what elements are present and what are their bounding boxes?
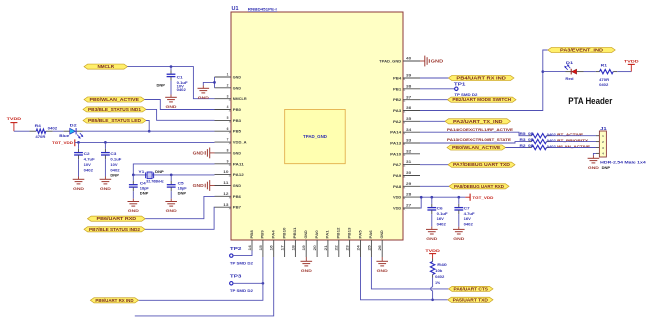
svg-text:0402: 0402 — [599, 83, 608, 87]
svg-text:5: 5 — [227, 116, 229, 120]
resistor R40 10k 0402 1% — [430, 259, 446, 285]
svg-text:0R: 0R — [528, 138, 534, 142]
wire R4 to D2 — [53, 130, 64, 132]
svg-text:BT_PRIORITY: BT_PRIORITY — [557, 139, 589, 143]
net label PA14/COEXCTRL1/RF_ACTIVE — [447, 128, 514, 132]
svg-text:PB2/UART MODE SWITCH: PB2/UART MODE SWITCH — [452, 97, 511, 102]
wire VDD rail pins 27-28 — [420, 197, 465, 208]
svg-text:19: 19 — [302, 245, 306, 250]
svg-text:VDD_A: VDD_A — [233, 141, 247, 145]
svg-text:18pF: 18pF — [178, 186, 187, 190]
svg-text:C3: C3 — [110, 152, 116, 156]
capacitor C6 0.1uF 16V 0402 — [427, 197, 447, 226]
svg-text:PA8: PA8 — [393, 185, 401, 189]
svg-text:GND: GND — [453, 236, 464, 241]
svg-text:R1: R1 — [601, 63, 607, 67]
svg-text:PA0: PA0 — [315, 230, 319, 238]
svg-text:GND: GND — [128, 208, 139, 213]
svg-text:D2: D2 — [70, 124, 77, 128]
svg-text:PA6: PA6 — [369, 230, 373, 238]
svg-text:6: 6 — [227, 127, 229, 131]
svg-text:PA13/COEXCTRL0/BT_STATE: PA13/COEXCTRL0/BT_STATE — [447, 138, 512, 142]
svg-text:38: 38 — [406, 84, 411, 88]
svg-text:PB9/UART RX IND: PB9/UART RX IND — [95, 298, 133, 303]
wire R2 to J1 pin 3 — [550, 147, 600, 149]
svg-text:DNP: DNP — [140, 192, 149, 196]
capacitor C7 4.7uF 16V 0402 — [454, 197, 474, 226]
svg-text:PA8/DEBUG UART RXD: PA8/DEBUG UART RXD — [454, 184, 504, 189]
svg-text:39: 39 — [406, 74, 411, 78]
wire PB5 flag drop to LED row — [146, 121, 149, 132]
wire NMCLR: flag to pin 3 — [128, 67, 215, 99]
svg-text:GND: GND — [233, 86, 241, 90]
svg-text:32: 32 — [406, 149, 411, 153]
svg-text:PA10: PA10 — [390, 152, 401, 156]
U1 value RNBD451PE-I — [248, 7, 277, 12]
net flag PA8/DEBUG UART RXD — [449, 184, 509, 189]
svg-text:HDR-2.54 Male 1x4: HDR-2.54 Male 1x4 — [600, 161, 646, 165]
svg-text:27: 27 — [406, 204, 411, 208]
svg-text:4: 4 — [227, 105, 229, 109]
svg-text:PB7/BLE STATUS IND2: PB7/BLE STATUS IND2 — [89, 227, 141, 232]
svg-text:PB4: PB4 — [393, 76, 402, 80]
svg-text:PB1: PB1 — [393, 87, 401, 91]
svg-text:TPAD_GND: TPAD_GND — [379, 59, 401, 63]
svg-text:PA4: PA4 — [272, 229, 276, 238]
svg-text:33: 33 — [406, 139, 411, 143]
svg-text:PB0: PB0 — [233, 108, 241, 112]
svg-text:NMCLR: NMCLR — [233, 97, 247, 101]
svg-text:0402: 0402 — [547, 145, 556, 149]
svg-text:TVDD: TVDD — [7, 116, 22, 121]
svg-text:PA7: PA7 — [393, 163, 401, 167]
test point TP1 TP SMD D2 — [454, 82, 478, 97]
svg-text:TP3: TP3 — [230, 274, 242, 279]
wire pin 37 PB2 to flag — [420, 99, 447, 101]
svg-text:PA3: PA3 — [393, 109, 401, 113]
svg-text:GND: GND — [588, 165, 599, 170]
svg-text:34: 34 — [406, 128, 411, 132]
svg-text:25: 25 — [367, 245, 371, 250]
ground under C1 — [165, 95, 177, 109]
LED D1 Red — [564, 61, 583, 81]
svg-text:VDD: VDD — [393, 206, 401, 210]
net flag PB9/UART RX IND — [90, 298, 138, 303]
ground under C3 — [100, 177, 112, 191]
svg-text:0402: 0402 — [464, 223, 473, 227]
svg-text:R4: R4 — [35, 124, 41, 128]
wire crystal row to pin 10 PA12 — [133, 174, 214, 176]
net flag PA7/DEBUG UART TXD — [448, 162, 515, 167]
svg-text:0402: 0402 — [110, 168, 119, 172]
svg-text:GND: GND — [73, 186, 84, 191]
svg-text:R5: R5 — [520, 132, 526, 136]
capacitor C3 0.1uF 10V 0402 DNP — [101, 142, 121, 177]
ground at pins 1-2 — [198, 86, 210, 100]
svg-text:22: 22 — [335, 245, 339, 250]
svg-text:0402: 0402 — [547, 133, 556, 137]
svg-text:VDD: VDD — [393, 196, 401, 200]
svg-text:PA2/UART_TX_IND: PA2/UART_TX_IND — [453, 119, 503, 124]
wire pin 16 PA4 down and left — [135, 257, 274, 316]
svg-text:RNBD451PE-I: RNBD451PE-I — [248, 7, 277, 12]
svg-text:PB2: PB2 — [393, 98, 401, 102]
junction on LED row — [148, 130, 151, 133]
svg-text:7: 7 — [227, 138, 229, 142]
wire R5 to J1 pin 1 — [550, 135, 600, 137]
svg-text:GND: GND — [193, 183, 204, 188]
svg-text:8: 8 — [227, 149, 229, 153]
svg-text:DNP: DNP — [602, 166, 611, 170]
svg-text:29: 29 — [406, 182, 411, 186]
svg-text:GND: GND — [100, 186, 111, 191]
svg-text:PA12: PA12 — [233, 173, 244, 177]
ground at pin 26 — [376, 257, 388, 273]
svg-text:2: 2 — [227, 83, 229, 87]
svg-text:PB0/WLAN_ACTIVE: PB0/WLAN_ACTIVE — [452, 145, 501, 150]
svg-text:0402: 0402 — [48, 126, 58, 130]
wire PA11 row to pin 9 — [133, 164, 214, 175]
ground under C6 — [426, 227, 438, 241]
svg-text:PB8: PB8 — [250, 230, 254, 238]
IC U1 RNBD451PE-I body — [231, 12, 403, 240]
svg-text:1: 1 — [227, 73, 229, 77]
svg-text:C7: C7 — [464, 207, 470, 211]
power port TGT_VDD (right) — [465, 194, 493, 201]
test point TP2 TP SMD D2 — [230, 246, 253, 265]
wire pin 33 PA13 to R3 — [420, 142, 529, 143]
svg-text:0402: 0402 — [435, 275, 444, 279]
svg-text:14: 14 — [248, 245, 252, 250]
ground under C7 — [453, 227, 465, 241]
svg-text:18: 18 — [291, 245, 295, 250]
svg-text:J1: J1 — [600, 126, 607, 131]
svg-text:PB11: PB11 — [293, 228, 297, 239]
svg-text:20: 20 — [313, 245, 317, 250]
svg-text:15: 15 — [259, 245, 263, 250]
svg-text:10V: 10V — [84, 163, 92, 167]
svg-text:0R: 0R — [528, 132, 534, 136]
svg-text:36: 36 — [406, 106, 411, 110]
wire pin 35 PA2 to flag — [420, 120, 445, 122]
net flag PB3/BLE_STATUS IND1 — [83, 107, 146, 112]
svg-text:PB6: PB6 — [233, 195, 241, 199]
junction R40 on PA5 row — [431, 298, 434, 301]
svg-text:PTA Header: PTA Header — [568, 96, 612, 106]
junction at C7 — [457, 196, 460, 199]
svg-text:PB0/WLAN_ACTIVE: PB0/WLAN_ACTIVE — [90, 97, 140, 102]
svg-text:18pF: 18pF — [140, 186, 149, 190]
resistor R1 470R 0402 — [596, 63, 617, 87]
svg-text:11: 11 — [223, 181, 228, 185]
junction TP3 on PB9 riser — [262, 282, 265, 285]
svg-text:C6: C6 — [437, 207, 443, 211]
svg-text:13: 13 — [223, 203, 228, 207]
net flag NMCLR — [84, 64, 128, 69]
svg-text:0402: 0402 — [547, 139, 556, 143]
svg-text:C2: C2 — [84, 152, 90, 156]
svg-text:TVDD: TVDD — [425, 248, 440, 253]
net label 0402 BT_PRIORITY — [547, 139, 589, 143]
svg-text:U1: U1 — [232, 6, 239, 12]
ground at pin 19 — [301, 257, 313, 273]
svg-text:17: 17 — [281, 245, 285, 250]
svg-text:16V: 16V — [437, 217, 445, 221]
svg-text:PB13: PB13 — [347, 228, 351, 239]
net flag PB5/BLE_STATUS LED — [83, 118, 146, 123]
svg-text:R2: R2 — [520, 144, 526, 148]
svg-text:TP SMD D2: TP SMD D2 — [230, 289, 253, 293]
svg-text:WLAN_ACTIVE: WLAN_ACTIVE — [557, 145, 591, 149]
svg-text:DNP: DNP — [110, 173, 119, 177]
wire pin 36 PA3 up to EVENT_IND flag — [420, 50, 548, 111]
svg-text:37: 37 — [406, 95, 411, 99]
resistor R5 0R 0402 — [520, 132, 550, 138]
wire PB3: flag to pin 5 — [146, 109, 215, 120]
net flag PB2/UART MODE SWITCH — [447, 97, 516, 102]
svg-text:Red: Red — [565, 77, 573, 81]
wire flag to R2 — [506, 147, 529, 149]
svg-text:PA5/UART TXD: PA5/UART TXD — [453, 297, 488, 302]
svg-text:TPAD_GND: TPAD_GND — [303, 134, 327, 139]
wire R1 to TVDD — [617, 71, 631, 73]
svg-text:23: 23 — [346, 245, 350, 250]
power port TVDD (left) — [7, 116, 22, 131]
svg-text:PB5/BLE_STATUS LED: PB5/BLE_STATUS LED — [88, 118, 141, 123]
ground at J1 pin 4 — [588, 156, 600, 170]
svg-text:PB9: PB9 — [261, 230, 265, 238]
svg-text:TP1: TP1 — [454, 82, 466, 87]
svg-text:0R: 0R — [528, 144, 534, 148]
net flag PB7/BLE STATUS IND2 — [84, 227, 145, 232]
svg-text:10V: 10V — [110, 163, 118, 167]
svg-text:TVDD: TVDD — [624, 58, 639, 63]
net flag PA6/UART CTS — [449, 286, 494, 291]
svg-text:PA5: PA5 — [358, 230, 362, 238]
net label PA13/COEXCTRL0/BT_STATE — [447, 138, 512, 142]
svg-text:0402: 0402 — [437, 223, 446, 227]
svg-text:PA6/UART CTS: PA6/UART CTS — [454, 286, 489, 291]
wire pin 25 PA6 to CTS flag — [371, 257, 448, 289]
svg-text:26: 26 — [378, 245, 382, 250]
svg-text:PB4/UART RX IND: PB4/UART RX IND — [456, 76, 506, 81]
wire PB0: flag to pin 4 — [145, 100, 215, 110]
wire TVDD to R4 — [14, 130, 30, 132]
svg-text:470R: 470R — [599, 78, 610, 82]
svg-text:GND: GND — [166, 104, 177, 109]
power port TVDD (above R40) — [425, 248, 440, 259]
svg-text:GND: GND — [166, 208, 177, 213]
wire PB7: flag to pin 13 — [145, 207, 215, 229]
junction pin 27 riser — [420, 196, 423, 199]
capacitor C1 0.1uF 10V 0402 DNP — [157, 67, 188, 95]
svg-text:D1: D1 — [566, 61, 573, 65]
wire D2 to pin 6 PB5 — [83, 130, 215, 132]
wire pins 1-2 GND bracket — [203, 77, 214, 88]
svg-text:0402: 0402 — [177, 88, 186, 92]
LED D2 Blue — [59, 124, 83, 139]
wire J1 pin 4 to ground — [593, 153, 599, 155]
svg-text:PB7: PB7 — [233, 206, 241, 210]
svg-text:GND: GND — [431, 59, 444, 64]
svg-text:C5: C5 — [178, 181, 184, 185]
wire TP3 to PB9 riser — [233, 282, 263, 284]
ground symbol at pin 8 — [193, 148, 215, 159]
net flag PB4/UART RX IND — [448, 75, 514, 80]
svg-text:R40: R40 — [437, 263, 447, 267]
wire TGT_VDD rail to pin 7 VDD_A — [75, 141, 215, 143]
svg-text:GND: GND — [198, 95, 209, 100]
svg-text:TP SMD D2: TP SMD D2 — [230, 261, 253, 265]
ground under C5 — [165, 199, 177, 213]
svg-text:DNP: DNP — [155, 170, 164, 174]
svg-text:R3: R3 — [520, 138, 526, 142]
junction at C6 — [430, 196, 433, 199]
wire D1 to R1 — [584, 71, 596, 73]
svg-text:PA2: PA2 — [393, 120, 401, 124]
wire pin 39 PB4 to flag — [420, 77, 448, 79]
svg-text:16V: 16V — [464, 217, 472, 221]
power port TVDD (right) — [624, 58, 639, 71]
svg-text:PA13: PA13 — [390, 141, 401, 145]
svg-text:PB12: PB12 — [337, 228, 341, 239]
svg-text:12: 12 — [223, 192, 228, 196]
svg-text:GND: GND — [193, 150, 204, 155]
ground symbol at pin 11 — [193, 180, 215, 191]
svg-text:40: 40 — [406, 57, 411, 61]
svg-text:TGT_VDD: TGT_VDD — [52, 140, 73, 145]
U1 right pins 27-40 (stubs, pin numbers, pin names) — [379, 57, 420, 211]
junction at C3 — [104, 141, 107, 144]
svg-text:GND: GND — [233, 184, 241, 188]
svg-text:35: 35 — [406, 117, 411, 121]
net flag PB0/WLAN_ACTIVE (left) — [84, 97, 145, 102]
ground under C4 — [128, 199, 140, 213]
svg-text:PA14: PA14 — [390, 131, 402, 135]
svg-text:0.1uF: 0.1uF — [437, 212, 448, 216]
svg-text:DNP: DNP — [178, 192, 187, 196]
junction at C2 — [77, 141, 80, 144]
svg-text:GND: GND — [301, 268, 312, 273]
svg-text:DNP: DNP — [157, 84, 166, 88]
net flag PA3/EVENT_IND — [548, 47, 615, 52]
svg-text:Blue: Blue — [59, 134, 69, 138]
svg-text:PB6/UART RXD: PB6/UART RXD — [97, 216, 137, 221]
wire pin 34 PA14 to R5 — [420, 132, 529, 136]
svg-text:32.768kHz: 32.768kHz — [146, 180, 164, 184]
crystal Y1 32.768kHz DNP — [138, 170, 164, 183]
svg-text:3: 3 — [227, 94, 229, 98]
ground at pin 40 TPAD_GND — [420, 56, 444, 67]
wire pin 29 PA8 to flag — [420, 185, 449, 187]
svg-text:PB3/BLE_STATUS IND1: PB3/BLE_STATUS IND1 — [88, 107, 142, 112]
svg-text:GND: GND — [304, 230, 308, 238]
junction on GND bracket — [213, 81, 216, 84]
svg-text:PB10: PB10 — [282, 228, 286, 239]
wire TP2 to pin 14 PB8 — [233, 251, 252, 256]
wire PB6: flag to pin 12 — [145, 196, 214, 218]
svg-text:TP2: TP2 — [230, 246, 242, 251]
svg-text:30: 30 — [406, 171, 411, 175]
svg-text:1%: 1% — [435, 281, 440, 285]
svg-text:4.7uF: 4.7uF — [84, 157, 95, 161]
net flag PA2/UART_TX_IND — [445, 119, 511, 124]
junction right crystal node — [170, 174, 173, 177]
wire pin 24 PA5 to TXD flag — [361, 257, 448, 300]
svg-text:21: 21 — [324, 245, 328, 250]
wire pin 38 PB1 to TP1 — [420, 88, 455, 90]
svg-text:BT_ACTIVE: BT_ACTIVE — [557, 133, 584, 137]
net flag PB6/UART RXD — [88, 216, 146, 221]
svg-text:PA9: PA9 — [393, 174, 401, 178]
power port TGT_VDD (left) — [52, 139, 75, 146]
net label 0402 BT_ACTIVE — [547, 133, 584, 137]
capacitor C2 4.7uF 10V 0402 — [74, 142, 95, 176]
net flag PA5/UART TXD — [448, 297, 493, 302]
svg-text:PA11: PA11 — [233, 162, 244, 166]
connector J1 HDR-2.54 Male 1x4 DNP — [599, 126, 645, 170]
wire junction to D1 — [543, 71, 566, 73]
svg-text:0.1uF: 0.1uF — [110, 157, 121, 161]
svg-text:PA14/COEXCTRL1/RF_ACTIVE: PA14/COEXCTRL1/RF_ACTIVE — [447, 128, 514, 132]
net label 0402 WLAN_ACTIVE — [547, 145, 591, 149]
wire pin 15 PB9 riser down to flag row — [139, 257, 263, 300]
resistor R2 0R 0402 — [520, 144, 550, 150]
net flag PB0/WLAN_ACTIVE (right) — [447, 145, 506, 150]
svg-text:9: 9 — [227, 159, 229, 163]
resistor R3 0R 0402 — [520, 138, 550, 144]
svg-text:NMCLR: NMCLR — [98, 64, 115, 69]
U1 left pins 1-13 (stubs, pin numbers, pin names) — [215, 73, 247, 210]
svg-text:PB5: PB5 — [233, 130, 241, 134]
svg-text:GND: GND — [377, 268, 388, 273]
wire R3 to J1 pin 2 — [550, 141, 600, 143]
PTA Header title — [568, 96, 612, 106]
junction at C1 top — [170, 65, 173, 68]
svg-text:PA3/EVENT_IND: PA3/EVENT_IND — [560, 48, 603, 53]
svg-text:PA7/DEBUG UART TXD: PA7/DEBUG UART TXD — [453, 162, 510, 167]
svg-text:16: 16 — [270, 245, 274, 250]
capacitor C5 18pF DNP — [167, 175, 187, 199]
svg-text:4.7uF: 4.7uF — [464, 212, 475, 216]
test point TP3 TP SMD D2 — [230, 274, 253, 293]
svg-text:Y1: Y1 — [138, 170, 144, 174]
svg-text:TGT_VDD: TGT_VDD — [472, 195, 493, 200]
wire pin 31 PA7 to flag — [420, 164, 448, 166]
svg-text:PB3: PB3 — [233, 119, 241, 123]
svg-text:0402: 0402 — [84, 168, 93, 172]
svg-text:GND: GND — [426, 236, 437, 241]
svg-text:10k: 10k — [435, 269, 442, 273]
svg-text:GND: GND — [233, 151, 241, 155]
junction D1 branch — [541, 70, 544, 73]
wire R40 down with hop over CTS row — [431, 278, 433, 300]
junction left crystal node — [132, 174, 135, 177]
svg-text:GND: GND — [233, 75, 241, 79]
U1 internal TPAD_GND box — [285, 109, 346, 163]
svg-text:GND: GND — [380, 230, 384, 238]
svg-text:28: 28 — [406, 193, 411, 197]
U1 designator — [232, 6, 239, 12]
svg-text:470R: 470R — [35, 135, 46, 139]
U1 bottom pins 14-26 (stubs, pin numbers, pin names) — [248, 228, 384, 258]
svg-text:C4: C4 — [140, 181, 146, 185]
svg-text:PA1: PA1 — [326, 230, 330, 238]
ground under C2 — [73, 177, 85, 191]
resistor R4 470R 0402 — [29, 124, 57, 139]
svg-text:31: 31 — [406, 160, 411, 164]
svg-text:24: 24 — [356, 245, 360, 250]
